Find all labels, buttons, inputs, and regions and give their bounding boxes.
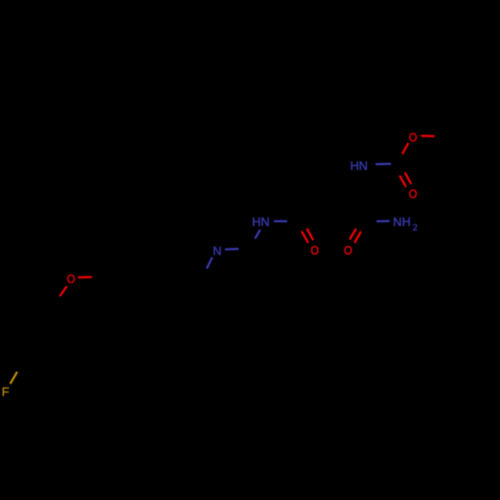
amide1 C=O double bond line a, red half: [302, 231, 309, 243]
bond O(ether)-CH2 right half, red: [78, 276, 92, 278]
bond N(ring)-C down-left half, blue: [207, 257, 213, 268]
svg-text:O: O: [67, 273, 75, 286]
bond C(=O)-NH2 half, blue: [377, 220, 390, 222]
svg-text:O: O: [409, 188, 417, 201]
amide1 C=O double bond line b, red half: [307, 228, 314, 240]
bond HN(amide1)-CH down-left half, blue: [255, 230, 260, 239]
amide2 C=O double bond line b, red half: [355, 231, 362, 242]
bond HN(carbamate)-C(=O) right half, blue: [376, 163, 391, 165]
bond O(ester)-C(carbamate) down-left half, red: [402, 143, 408, 154]
svg-text:O: O: [344, 245, 352, 258]
bond O(ether)-C(aryl) down-left half, red: [60, 286, 67, 296]
svg-text:HN: HN: [252, 215, 270, 229]
carbamate C=O double bond line a, red half: [400, 176, 406, 187]
svg-text:NH: NH: [393, 215, 411, 229]
carbamate C=O double bond line b, red half: [405, 172, 411, 184]
bond F-C (fluorine half, gold): [10, 372, 17, 384]
svg-text:2: 2: [412, 222, 417, 232]
svg-text:O: O: [311, 245, 319, 258]
svg-text:O: O: [409, 132, 417, 145]
bond N(ring)-CH right half, blue: [225, 248, 239, 251]
svg-text:HN: HN: [350, 159, 368, 173]
bond O(ester)-C(tBu) right half, red: [421, 135, 435, 137]
amide2 C=O double bond line a, red half: [350, 229, 357, 240]
svg-text:F: F: [2, 385, 9, 399]
svg-text:N: N: [213, 244, 222, 258]
bond HN(amide1)-C(=O) right half, blue: [274, 220, 287, 222]
